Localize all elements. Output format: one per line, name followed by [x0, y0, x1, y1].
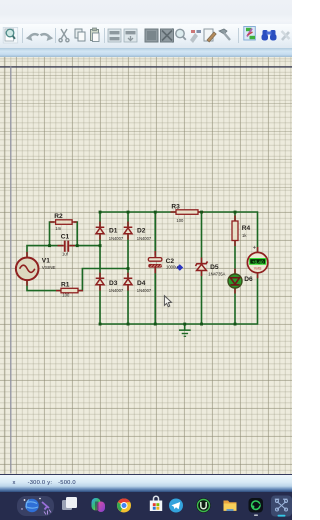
svg-text:R4: R4	[242, 225, 251, 232]
svg-text:1000u: 1000u	[166, 265, 178, 270]
svg-text:VSINE: VSINE	[42, 265, 56, 270]
svg-text:1N4735A: 1N4735A	[208, 272, 225, 277]
svg-text:+: +	[253, 246, 257, 252]
svg-text:1uf: 1uf	[62, 252, 69, 257]
svg-text:+8.40: +8.40	[252, 259, 264, 264]
svg-text:1N4007: 1N4007	[109, 236, 124, 241]
svg-text:D4: D4	[137, 280, 146, 287]
svg-text:1N4007: 1N4007	[137, 288, 152, 293]
svg-text:100: 100	[176, 218, 184, 223]
svg-text:D5: D5	[210, 264, 219, 271]
svg-text:D6: D6	[244, 276, 253, 283]
svg-text:C1: C1	[61, 233, 70, 240]
svg-text:D3: D3	[109, 280, 118, 287]
svg-text:1m: 1m	[55, 226, 61, 231]
svg-text:1N4007: 1N4007	[137, 236, 152, 241]
svg-text:V1: V1	[42, 257, 50, 264]
svg-text:1N4007: 1N4007	[109, 288, 124, 293]
svg-text:D2: D2	[137, 228, 146, 235]
svg-text:1k: 1k	[242, 233, 247, 238]
svg-text:R1: R1	[61, 281, 70, 288]
svg-text:D1: D1	[109, 228, 118, 235]
svg-text:R3: R3	[171, 203, 180, 210]
svg-text:100: 100	[62, 293, 70, 298]
svg-text:R2: R2	[54, 213, 63, 220]
svg-text:Volts: Volts	[254, 266, 262, 270]
